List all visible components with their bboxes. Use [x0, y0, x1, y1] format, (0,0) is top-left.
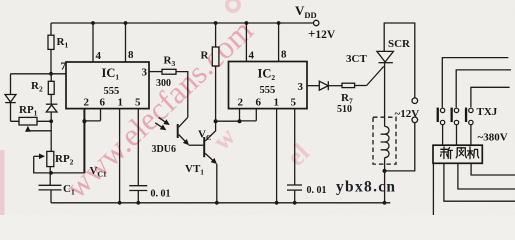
wire R3 to phototransistor [176, 72, 188, 118]
IC2 pin8 wire [278, 23, 280, 62]
wire node B horizontal [11, 120, 52, 122]
IC2 pin4 wire [245, 23, 247, 62]
node B junction [49, 119, 53, 123]
resistor R2 [50, 74, 52, 82]
SCR gate wire [367, 66, 384, 85]
watermark elecfans diagonal [78, 14, 275, 200]
IC2 pin5 wire [294, 109, 296, 185]
node A junction [49, 72, 53, 76]
potentiometer RP2 [47, 151, 54, 166]
contactor TXJ contact 2 [451, 108, 459, 146]
wire VC to IC2 pin2 [216, 120, 240, 122]
op IC1 555 box [66, 62, 149, 109]
thyristor SCR 3CT [384, 23, 415, 98]
bottom ground rail [51, 202, 390, 204]
capacitor 0.01 first [129, 185, 147, 187]
contactor TXJ contact 1 [437, 108, 445, 146]
phototransistor 3DU6 [179, 117, 188, 127]
glyph feng [456, 148, 466, 158]
IC1 pin4 wire [92, 23, 94, 62]
IC1 pin5 wire [137, 109, 139, 186]
wire node C to IC1 pins 2,6 [51, 172, 84, 174]
diode D1 [5, 95, 16, 103]
capacitor 0.01 second [287, 184, 302, 186]
wire pin7 [11, 73, 67, 75]
scan noise overlay [0, 0, 1, 1]
three phase supply wires [442, 58, 508, 108]
contactor TXJ contact 3 [465, 108, 473, 146]
IC1 pin3 wire [149, 71, 162, 73]
capacitor C1 [39, 184, 62, 186]
resistor R3 [162, 69, 176, 74]
terminal ~12V bottom [412, 117, 418, 123]
glyph ji [468, 147, 479, 159]
resistor R pullup [214, 21, 218, 25]
diode D3 [319, 81, 328, 90]
resistor R7 [342, 83, 355, 87]
potentiometer RP1 [19, 117, 37, 125]
wire left branch [10, 74, 12, 95]
glyph xin [441, 147, 453, 159]
IC1 pin6 wire [84, 109, 100, 121]
relay coil TXJ [373, 117, 396, 164]
IC1 pin2 wire [83, 109, 85, 173]
op IC2 555 box [229, 62, 308, 109]
watermark fragment top curl [227, 0, 239, 11]
node C junction [49, 171, 53, 175]
watermark fragment left strip [0, 150, 5, 215]
fan box 新风机 [433, 145, 482, 163]
top VDD rail [51, 22, 313, 24]
IC1 pin8 wire [125, 23, 127, 62]
terminal ~12V top [412, 98, 418, 104]
light arrows [159, 118, 169, 125]
wire ~12V to coil bottom [385, 123, 415, 171]
transistor VT1 [203, 137, 205, 157]
IC1 pin1 wire [119, 109, 121, 203]
wires below fan box [444, 163, 515, 201]
IC2 pin1 wire [276, 109, 278, 203]
terminal VDD circle [314, 20, 319, 25]
IC2 pin3 wire [307, 85, 319, 87]
IC2 pins2,6 wire [240, 109, 257, 122]
diode D2 [46, 103, 58, 105]
resistor R1 [50, 23, 52, 35]
